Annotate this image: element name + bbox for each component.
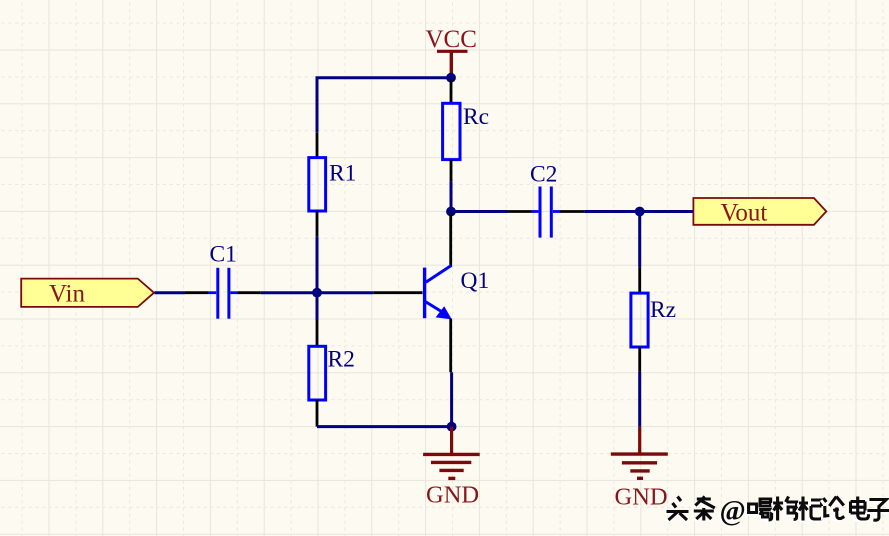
resistor R2	[309, 346, 326, 400]
transistor Q1	[425, 265, 452, 319]
wire Vout node to port	[640, 210, 694, 213]
wire output node to C2	[451, 210, 507, 213]
resistor Rz pin 2	[638, 347, 641, 372]
power port VCC	[426, 26, 477, 78]
svg-text:VCC: VCC	[426, 26, 477, 53]
node VCC junction	[446, 73, 456, 83]
svg-text:R1: R1	[329, 161, 356, 187]
wire Vout node down to Rz	[638, 212, 641, 268]
transistor Q1 collector pin	[449, 213, 452, 266]
wire top rail from R1 column to VCC node	[317, 78, 451, 133]
svg-text:C2: C2	[530, 162, 557, 188]
node Vout junction	[635, 207, 645, 217]
svg-text:Rc: Rc	[463, 104, 489, 130]
resistor Rz	[631, 293, 648, 347]
wire Vin to C1	[155, 291, 186, 294]
capacitor C1 pin 2	[237, 291, 261, 294]
transistor Q1 emitter pin	[449, 319, 452, 373]
resistor Rc	[443, 103, 460, 159]
node emitter ground junction	[447, 422, 457, 432]
svg-text:GND: GND	[426, 482, 479, 509]
wire R1 to input node	[316, 236, 319, 292]
wire bottom rail R2 to emitter node	[317, 425, 452, 428]
capacitor C2 pin 2	[560, 210, 584, 213]
svg-text:GND: GND	[615, 484, 668, 511]
capacitor C2 pin 1	[507, 210, 532, 213]
port Vout	[693, 198, 826, 227]
transistor Q1 base pin	[373, 291, 422, 294]
wire C1 to input node	[261, 291, 317, 294]
resistor R2 pin 2	[316, 400, 319, 427]
capacitor C1	[208, 268, 237, 319]
capacitor C1 pin 1	[185, 291, 208, 294]
resistor Rz pin 1	[638, 267, 641, 293]
svg-text:Vin: Vin	[49, 281, 85, 308]
ground GND right	[611, 427, 668, 511]
node input junction	[312, 288, 322, 298]
svg-text:C1: C1	[210, 242, 237, 268]
port Vin	[21, 279, 154, 308]
resistor R2 top wire from input node	[316, 293, 319, 320]
wire Rc to output node	[450, 181, 453, 211]
wire input node to base pin	[317, 291, 373, 294]
svg-text:@: @	[720, 496, 746, 527]
svg-text:Vout: Vout	[721, 200, 768, 227]
resistor R1	[309, 158, 326, 211]
wire C2 to Vout node	[584, 210, 639, 213]
wire emitter to bottom node	[450, 372, 453, 426]
watermark	[665, 496, 889, 529]
svg-text:Rz: Rz	[650, 297, 676, 323]
node output junction at collector	[446, 207, 456, 217]
svg-text:Q1: Q1	[461, 268, 490, 294]
capacitor C2	[532, 187, 561, 238]
ground GND middle	[423, 427, 480, 509]
wire Rz to ground	[638, 372, 641, 427]
resistor R1 pin 1	[316, 133, 319, 158]
svg-text:R2: R2	[328, 347, 355, 373]
resistor R1 pin 2	[316, 211, 319, 236]
resistor Rc pin 2	[450, 160, 453, 182]
resistor R2 pin 1	[316, 320, 319, 346]
resistor Rc pin 1	[450, 79, 453, 104]
